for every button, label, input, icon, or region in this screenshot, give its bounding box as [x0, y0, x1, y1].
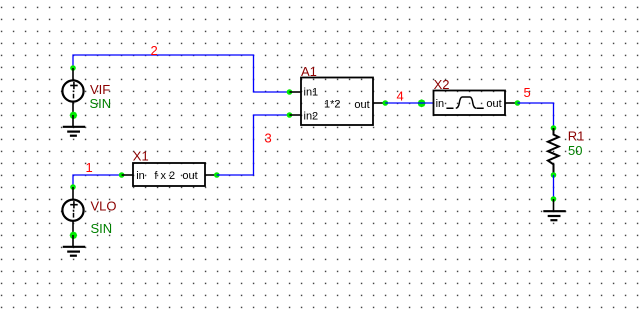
wire node 4 (A1 out to X2 in) — [385, 102, 433, 104]
pin dot VLO negative (junction) — [70, 232, 78, 240]
svg-text:5: 5 — [524, 85, 531, 100]
svg-text:R1: R1 — [568, 128, 585, 143]
svg-text:out: out — [486, 98, 501, 110]
junction dot ground node — [551, 196, 557, 202]
pin dot X2 in (large) — [418, 99, 426, 107]
ground (below VLO) — [63, 235, 85, 256]
svg-text:in: in — [136, 170, 145, 182]
wire node 5 (X2 out to R1) — [518, 103, 554, 128]
svg-text:X2: X2 — [434, 77, 450, 92]
svg-text:in2: in2 — [304, 110, 319, 122]
pin dot X1 out — [214, 172, 220, 178]
junction dot node 2 at VIF — [70, 65, 76, 71]
svg-text:SIN: SIN — [91, 221, 113, 236]
pin dot VIF negative (junction) — [70, 112, 78, 120]
wire node 1 (VLO top to X1 in) — [73, 175, 122, 187]
subcircuit X1 (frequency doubler) — [122, 163, 217, 186]
multiplier A1 — [290, 78, 386, 126]
svg-text:SIN: SIN — [90, 96, 112, 111]
pin dot R1 bottom — [551, 172, 557, 178]
junction dot at A1 pin in1 — [287, 89, 293, 95]
svg-text:X1: X1 — [133, 149, 149, 164]
svg-text:1*2: 1*2 — [324, 99, 341, 111]
wire node 3 (X1 out to A1 in2) — [217, 115, 290, 175]
junction dot node 1 at VLO — [70, 184, 76, 190]
wire node 2 (VIF top to A1 in1) — [73, 55, 290, 92]
svg-text:f x 2: f x 2 — [154, 170, 175, 182]
pin dot X1 in — [119, 172, 125, 178]
voltage source VIF — [62, 68, 83, 115]
svg-text:out: out — [354, 99, 369, 111]
resistor R1 — [548, 128, 559, 175]
voltage source VLO — [62, 187, 83, 235]
svg-text:VLO: VLO — [91, 198, 117, 213]
junction dot at A1 pin in2 — [287, 112, 293, 118]
svg-text:out: out — [182, 170, 197, 182]
pin dot X2 out — [515, 100, 521, 106]
svg-text:4: 4 — [397, 88, 404, 103]
svg-text:in1: in1 — [304, 86, 319, 98]
svg-text:1: 1 — [86, 160, 93, 175]
svg-text:VIF: VIF — [90, 82, 110, 97]
pin dot R1 top — [551, 125, 557, 131]
ground (below VIF) — [63, 115, 85, 136]
subcircuit X2 (bandpass filter) — [434, 91, 518, 116]
svg-text:3: 3 — [265, 130, 272, 145]
wire R1 to ground — [553, 175, 555, 199]
svg-text:in: in — [436, 98, 445, 110]
svg-text:A1: A1 — [301, 64, 317, 79]
svg-text:2: 2 — [151, 43, 158, 58]
svg-text:50: 50 — [568, 143, 582, 158]
ground (below R1) — [543, 199, 565, 220]
pin dot A1 out — [383, 100, 389, 106]
